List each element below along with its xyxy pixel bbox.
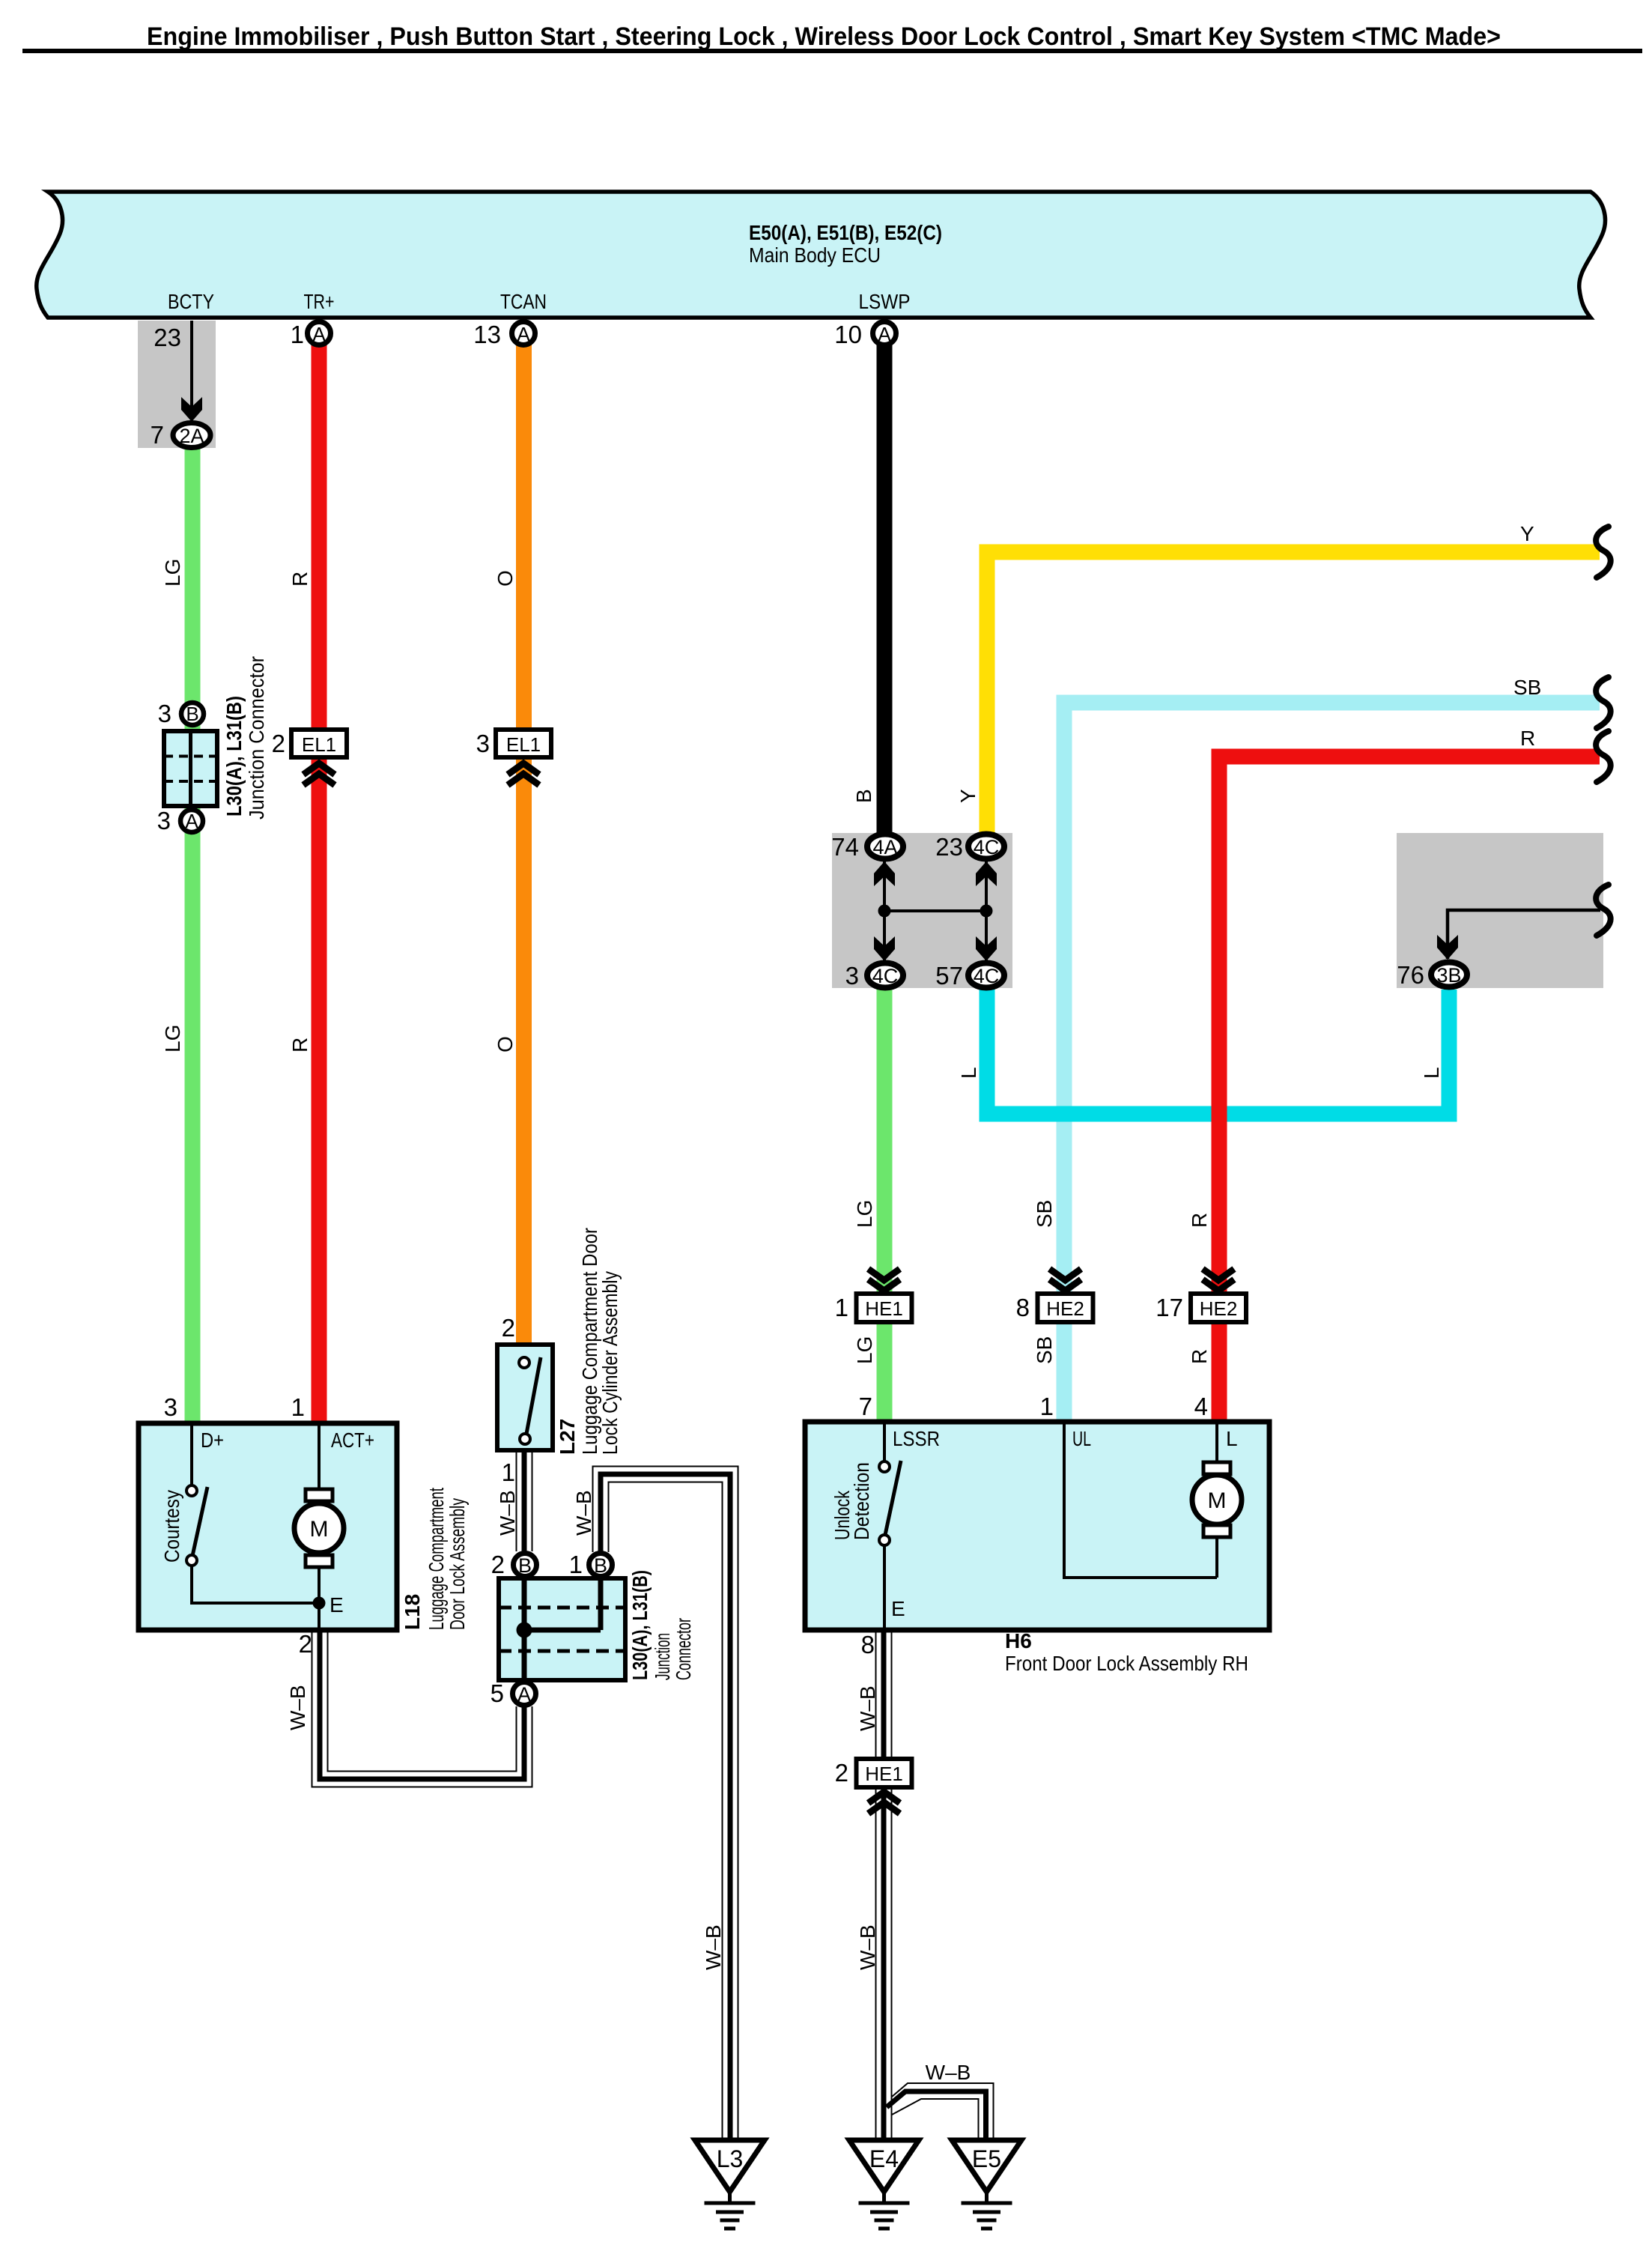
svg-text:W–B: W–B: [572, 1490, 595, 1536]
svg-text:R: R: [1520, 727, 1535, 750]
svg-text:LG: LG: [161, 1025, 184, 1052]
svg-text:2: 2: [299, 1630, 312, 1658]
svg-text:1: 1: [835, 1294, 848, 1321]
svg-text:H6: H6: [1005, 1629, 1032, 1652]
svg-text:O: O: [494, 1036, 517, 1052]
svg-text:LSWP: LSWP: [859, 290, 911, 313]
svg-text:SB: SB: [1033, 1336, 1056, 1364]
svg-text:A: A: [517, 323, 530, 345]
svg-text:4A: 4A: [872, 836, 897, 858]
svg-text:Main Body ECU: Main Body ECU: [749, 243, 881, 267]
svg-text:1: 1: [291, 1393, 305, 1421]
svg-text:W–B: W–B: [702, 1924, 725, 1970]
svg-text:D+: D+: [201, 1429, 224, 1452]
svg-text:Luggage Compartment: Luggage Compartment: [425, 1488, 448, 1630]
svg-text:Door Lock Assembly: Door Lock Assembly: [446, 1498, 469, 1630]
svg-text:1: 1: [291, 321, 304, 348]
svg-text:2A: 2A: [179, 425, 204, 447]
svg-text:E: E: [891, 1597, 905, 1620]
svg-text:17: 17: [1156, 1294, 1183, 1321]
svg-text:HE1: HE1: [865, 1763, 903, 1785]
svg-text:Connector: Connector: [672, 1618, 695, 1680]
svg-text:Lock Cylinder Assembly: Lock Cylinder Assembly: [598, 1271, 622, 1455]
svg-text:L30(A), L31(B): L30(A), L31(B): [222, 696, 246, 817]
svg-text:7: 7: [151, 421, 164, 449]
svg-text:74: 74: [831, 833, 859, 861]
svg-text:ACT+: ACT+: [331, 1429, 374, 1452]
svg-text:2: 2: [502, 1314, 515, 1342]
svg-text:1: 1: [569, 1551, 583, 1578]
svg-text:E: E: [330, 1593, 344, 1617]
svg-text:4: 4: [1194, 1393, 1208, 1420]
svg-text:4C: 4C: [974, 836, 1000, 858]
svg-text:3: 3: [157, 807, 171, 834]
svg-text:HE2: HE2: [1046, 1297, 1084, 1320]
svg-text:L18: L18: [401, 1594, 424, 1630]
svg-text:LG: LG: [853, 1200, 876, 1228]
svg-text:LSSR: LSSR: [893, 1427, 940, 1450]
svg-text:3: 3: [845, 962, 859, 990]
svg-text:R: R: [288, 572, 312, 587]
svg-text:3: 3: [164, 1393, 177, 1421]
svg-text:5: 5: [491, 1679, 504, 1707]
svg-text:4C: 4C: [872, 965, 899, 987]
svg-text:1: 1: [502, 1458, 515, 1486]
svg-text:E5: E5: [972, 2145, 1001, 2172]
svg-text:13: 13: [473, 321, 501, 348]
svg-text:4C: 4C: [974, 965, 1000, 987]
svg-text:L: L: [1420, 1067, 1443, 1079]
svg-text:W–B: W–B: [496, 1490, 519, 1536]
svg-text:M: M: [310, 1517, 329, 1542]
svg-text:Junction: Junction: [651, 1633, 674, 1680]
svg-text:R: R: [288, 1037, 312, 1052]
svg-text:8: 8: [1016, 1294, 1030, 1321]
svg-text:1: 1: [1040, 1393, 1054, 1420]
svg-text:L: L: [957, 1067, 980, 1079]
svg-text:R: R: [1188, 1213, 1211, 1228]
svg-text:3B: 3B: [1436, 964, 1461, 987]
svg-text:W–B: W–B: [856, 1685, 879, 1731]
svg-text:HE2: HE2: [1200, 1297, 1238, 1320]
svg-text:Junction Connector: Junction Connector: [245, 656, 268, 819]
svg-text:W–B: W–B: [926, 2061, 971, 2084]
svg-text:3: 3: [158, 700, 171, 727]
svg-text:R: R: [1188, 1349, 1211, 1364]
svg-text:57: 57: [935, 962, 963, 990]
svg-text:LG: LG: [161, 559, 184, 587]
svg-text:EL1: EL1: [506, 733, 541, 756]
svg-text:L27: L27: [556, 1419, 579, 1455]
svg-text:23: 23: [935, 833, 963, 861]
svg-text:UL: UL: [1072, 1427, 1091, 1450]
svg-text:E4: E4: [869, 2145, 899, 2172]
svg-text:23: 23: [154, 324, 181, 351]
svg-text:B: B: [186, 703, 198, 725]
svg-text:Y: Y: [1520, 522, 1534, 545]
svg-text:L3: L3: [717, 2145, 744, 2172]
svg-text:Engine Immobiliser , Push Butt: Engine Immobiliser , Push Button Start ,…: [147, 22, 1501, 51]
svg-text:L30(A), L31(B): L30(A), L31(B): [628, 1570, 652, 1680]
svg-text:W–B: W–B: [856, 1924, 879, 1970]
svg-text:B: B: [852, 789, 875, 803]
svg-text:L: L: [1226, 1427, 1238, 1450]
svg-text:LG: LG: [853, 1336, 876, 1364]
svg-text:SB: SB: [1513, 676, 1541, 699]
svg-text:O: O: [494, 570, 517, 587]
svg-text:Detection: Detection: [850, 1462, 873, 1540]
svg-text:E50(A), E51(B), E52(C): E50(A), E51(B), E52(C): [749, 221, 942, 244]
svg-text:A: A: [517, 1683, 531, 1706]
svg-text:TR+: TR+: [304, 290, 335, 313]
svg-text:76: 76: [1397, 961, 1424, 989]
svg-text:A: A: [312, 323, 326, 345]
svg-text:B: B: [594, 1554, 607, 1577]
svg-text:SB: SB: [1033, 1200, 1056, 1228]
svg-text:HE1: HE1: [865, 1297, 903, 1320]
svg-text:TCAN: TCAN: [500, 290, 547, 313]
svg-text:A: A: [185, 810, 198, 832]
svg-text:2: 2: [835, 1759, 848, 1787]
svg-text:W–B: W–B: [286, 1685, 309, 1730]
svg-text:7: 7: [859, 1393, 872, 1420]
svg-text:Y: Y: [956, 789, 980, 803]
svg-text:A: A: [878, 323, 891, 345]
svg-text:8: 8: [861, 1631, 875, 1658]
svg-text:M: M: [1208, 1488, 1227, 1513]
svg-text:3: 3: [476, 730, 490, 757]
svg-text:2: 2: [491, 1551, 505, 1578]
svg-text:EL1: EL1: [302, 733, 336, 756]
svg-text:Front Door Lock Assembly RH: Front Door Lock Assembly RH: [1005, 1652, 1248, 1675]
svg-text:B: B: [518, 1554, 532, 1577]
svg-text:10: 10: [834, 321, 862, 348]
svg-text:2: 2: [272, 730, 285, 757]
svg-text:BCTY: BCTY: [168, 290, 214, 313]
svg-text:Courtesy: Courtesy: [160, 1490, 183, 1563]
